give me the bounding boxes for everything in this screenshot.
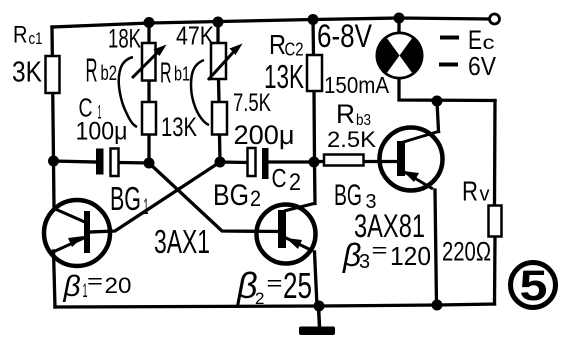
brace after Rb1 <box>191 60 209 125</box>
svg-text:25: 25 <box>283 265 312 306</box>
wire right branch to Rv <box>493 101 497 206</box>
resistor Rb3 2.5K (horizontal) <box>324 155 364 166</box>
resistor Rb2 13K <box>142 102 156 135</box>
label beta1=20 <box>63 270 132 303</box>
svg-text:=: = <box>267 273 283 295</box>
junction BG2 collector / C2 / Rb3 <box>309 157 320 168</box>
wire left node to C1 <box>54 161 97 162</box>
svg-text:β: β <box>63 270 81 303</box>
svg-text:R: R <box>160 58 172 90</box>
transistor BG3 (PNP) <box>380 128 443 191</box>
svg-text:120: 120 <box>390 241 431 271</box>
wire lamp node to BG3 collector <box>437 101 439 132</box>
svg-text:5: 5 <box>520 262 548 310</box>
wire BG3 emitter to bottom rail <box>435 190 437 305</box>
svg-text:6-8V: 6-8V <box>317 18 373 54</box>
svg-text:v: v <box>480 184 490 206</box>
label BG2 <box>213 179 261 212</box>
wire 7.5K to node <box>218 135 222 163</box>
label Rb2 <box>86 52 118 89</box>
ground <box>299 306 335 335</box>
svg-text:2: 2 <box>250 186 261 211</box>
svg-text:C2: C2 <box>285 40 304 60</box>
junction supply rail / Rb1 47K <box>213 17 224 28</box>
resistor Rc1 3K <box>46 56 60 93</box>
transistor BG2 (PNP) <box>257 203 317 264</box>
wire lamp top <box>397 18 400 32</box>
svg-text:C: C <box>272 163 287 193</box>
junction lamp / BG3 collector / Rv <box>432 96 443 107</box>
lamp (indicator) <box>376 32 424 80</box>
svg-text:1: 1 <box>144 194 149 219</box>
wire cross-coupling diagonal to BG2 base <box>149 163 279 232</box>
brace after Rb2 <box>119 57 137 127</box>
label Rc2 <box>269 29 304 60</box>
label -6V <box>439 51 497 81</box>
wire Rc2 to node <box>312 91 316 162</box>
wire C1 to node <box>119 161 149 165</box>
svg-text:R: R <box>269 29 286 60</box>
junction supply rail / Rb2 18K <box>144 17 155 28</box>
svg-text:2: 2 <box>289 169 301 196</box>
label beta2=25 <box>236 265 312 308</box>
svg-text:47K: 47K <box>176 21 215 51</box>
label BG3 <box>334 179 377 213</box>
svg-text:13K: 13K <box>264 58 304 95</box>
resistor Rv 220 ohm <box>489 206 502 237</box>
wire 18K to 13K <box>147 81 150 103</box>
wire bottom ground rail <box>55 304 495 307</box>
label -Ec <box>440 25 495 55</box>
svg-text:100μ: 100μ <box>76 118 128 146</box>
wire 47K to 7.5K <box>217 79 221 102</box>
svg-text:2: 2 <box>255 289 264 308</box>
junction BG2 base node <box>144 158 155 169</box>
label C1 <box>79 93 102 124</box>
svg-text:R: R <box>462 176 478 207</box>
wire Rc2 column top <box>311 20 315 56</box>
svg-text:BG: BG <box>110 180 141 217</box>
wire lamp bottom <box>399 80 495 101</box>
svg-text:200μ: 200μ <box>234 120 295 150</box>
svg-text:3K: 3K <box>12 57 43 89</box>
wire cross-coupling diagonal to BG1 base <box>90 162 220 232</box>
label Rc1 <box>13 22 43 49</box>
svg-text:R: R <box>336 99 355 129</box>
svg-text:R: R <box>86 52 98 89</box>
wire C2 to Rc2 node <box>269 160 315 163</box>
svg-text:150mA: 150mA <box>324 72 390 98</box>
svg-text:18K: 18K <box>108 24 141 54</box>
label C2 <box>272 163 302 196</box>
resistor Rc2 13K <box>307 55 322 91</box>
junction BG1 base node <box>215 157 226 168</box>
junction supply rail / lamp <box>394 13 405 24</box>
junction ground rail / BG2 emitter <box>314 301 325 312</box>
transistor BG1 (PNP) <box>44 200 110 266</box>
label beta3=120 <box>342 237 431 273</box>
resistor Rb1 47K (variable, arrow) <box>208 43 243 80</box>
svg-text:b2: b2 <box>101 62 118 85</box>
svg-text:=: = <box>87 271 103 293</box>
svg-text:2.5K: 2.5K <box>327 127 376 152</box>
junction supply rail / Rc2 <box>308 14 319 25</box>
svg-text:3AX1: 3AX1 <box>154 223 210 260</box>
wire Rv to bottom rail <box>493 237 497 305</box>
svg-text:b1: b1 <box>174 64 190 86</box>
wire top supply rail <box>52 18 490 27</box>
resistor Rb1 7.5K <box>212 102 227 135</box>
wire BG1 emitter to bottom rail <box>54 251 56 307</box>
label BG1 <box>110 180 149 219</box>
svg-text:c1: c1 <box>29 29 43 48</box>
wire 13K to node <box>147 135 150 164</box>
svg-text:R: R <box>13 22 28 49</box>
label Rb3 <box>336 99 371 129</box>
capacitor C1 100u <box>96 149 119 177</box>
wire BG2 emitter to bottom rail <box>315 252 318 306</box>
resistor Rb2 18K (variable, arrow) <box>132 43 167 81</box>
wire node to C2 <box>220 160 247 164</box>
wire 47K column top <box>216 22 219 43</box>
svg-text:220Ω: 220Ω <box>442 237 491 267</box>
terminal -Ec <box>490 14 500 24</box>
wire 18K column top <box>147 23 150 44</box>
svg-text:=: = <box>372 240 388 262</box>
wire left vertical (Rc1 / BG1 collector) <box>52 27 54 208</box>
svg-text:20: 20 <box>105 273 132 298</box>
svg-text:6V: 6V <box>468 51 497 81</box>
label Rb1 <box>160 58 190 90</box>
wire node to BG2 collector <box>313 162 317 204</box>
figure number 5 <box>511 262 556 310</box>
label Rv <box>462 176 490 207</box>
junction BG1 collector / C1 <box>48 156 59 167</box>
junction ground rail / BG3 emitter <box>432 300 443 311</box>
svg-text:3: 3 <box>359 251 370 273</box>
wire Rb3 horizontal <box>314 160 397 163</box>
capacitor C2 200u <box>248 148 269 179</box>
svg-text:3AX81: 3AX81 <box>354 208 425 244</box>
svg-text:13K: 13K <box>161 112 197 142</box>
svg-text:BG: BG <box>213 179 249 212</box>
